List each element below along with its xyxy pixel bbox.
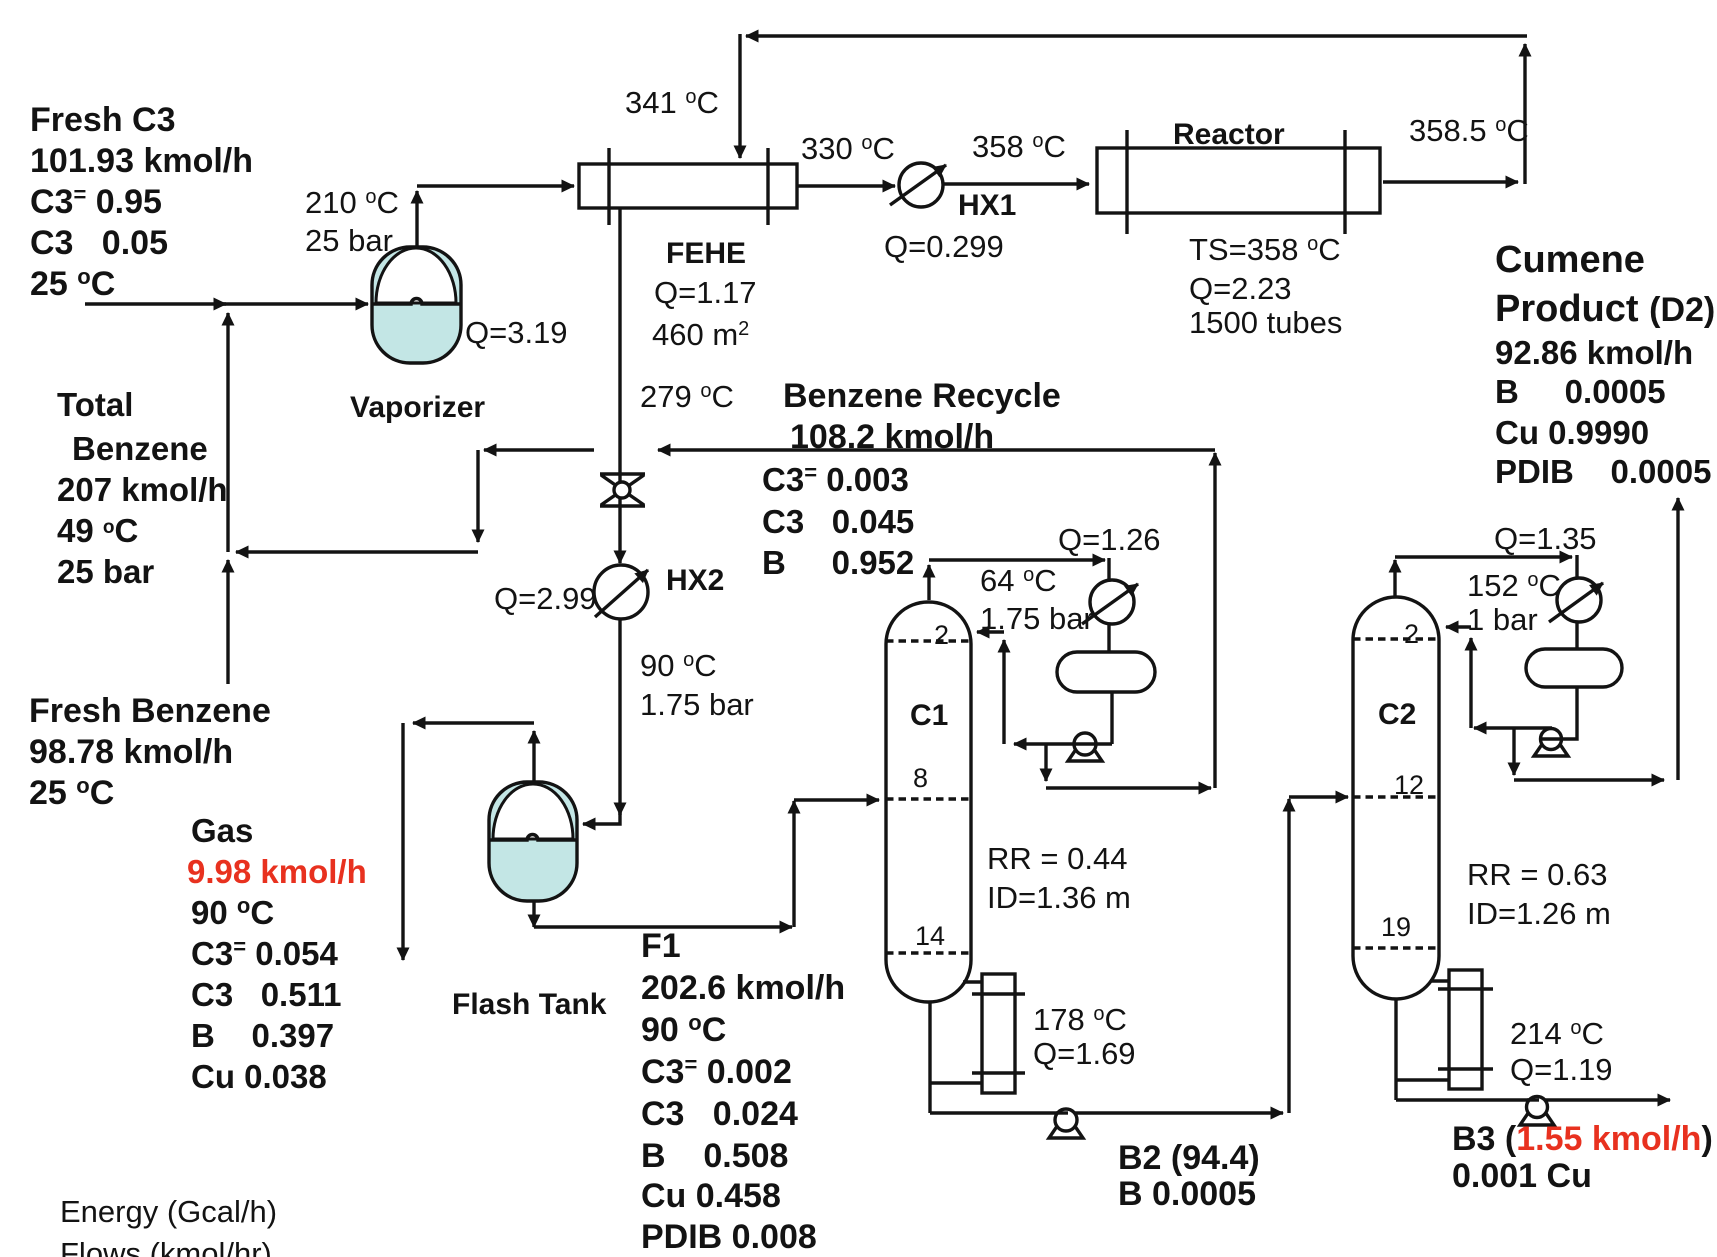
svg-text:B2 (94.4): B2 (94.4)	[1118, 1139, 1260, 1177]
svg-text:Cu 0.9990: Cu 0.9990	[1495, 414, 1649, 451]
svg-text:279 oC: 279 oC	[640, 379, 734, 414]
C2 reflux pump	[1534, 729, 1568, 757]
svg-text:FEHE: FEHE	[666, 237, 746, 270]
svg-text:2: 2	[1404, 619, 1419, 649]
svg-text:Cu 0.038: Cu 0.038	[191, 1058, 327, 1095]
svg-text:90 oC: 90 oC	[191, 893, 274, 931]
wire: drum to pump line C1	[1014, 692, 1112, 744]
svg-text:Q=2.23: Q=2.23	[1189, 271, 1292, 306]
HX1 duty Q=0.299	[884, 229, 1004, 264]
C1 condenser duty Q=1.26	[1058, 522, 1161, 557]
svg-text:152 oC: 152 oC	[1467, 568, 1561, 603]
svg-text:Q=3.19: Q=3.19	[465, 315, 568, 350]
column C1	[886, 602, 971, 1002]
svg-text:330 oC: 330 oC	[801, 131, 895, 166]
svg-text:Flash Tank: Flash Tank	[452, 988, 607, 1021]
label 358 C	[972, 129, 1066, 164]
label 210 C 25 bar	[305, 185, 399, 258]
wire: cumene product riser	[1676, 498, 1679, 780]
svg-text:98.78 kmol/h: 98.78 kmol/h	[29, 733, 233, 771]
wire: drum down to pump C2	[1474, 687, 1577, 739]
svg-text:14: 14	[915, 921, 945, 951]
svg-text:202.6 kmol/h: 202.6 kmol/h	[641, 969, 845, 1007]
wire: condenser to reflux drum C2	[1575, 622, 1578, 649]
wire: C1 distillate to recycle riser	[1046, 744, 1211, 788]
svg-text:Product (D2): Product (D2)	[1495, 288, 1715, 330]
B3 stream label	[1452, 1120, 1713, 1195]
svg-text:B3 (1.55 kmol/h): B3 (1.55 kmol/h)	[1452, 1120, 1713, 1158]
vaporizer vessel	[372, 247, 461, 363]
C1 label	[910, 699, 948, 732]
cumene product text block	[1495, 239, 1715, 490]
svg-text:25 bar: 25 bar	[57, 553, 154, 590]
C2 condenser duty Q=1.35	[1494, 521, 1597, 556]
svg-text:ID=1.36 m: ID=1.36 m	[987, 880, 1131, 915]
label 152 C 1 bar	[1467, 568, 1561, 637]
svg-text:Q=1.69: Q=1.69	[1033, 1036, 1136, 1071]
svg-text:92.86 kmol/h: 92.86 kmol/h	[1495, 334, 1693, 371]
svg-text:C3 0.05: C3 0.05	[30, 224, 168, 262]
svg-text:B 0.397: B 0.397	[191, 1017, 334, 1054]
label 64 C 1.75 bar	[980, 563, 1094, 636]
HX2 duty Q=2.99	[494, 581, 597, 616]
reactor label	[1173, 118, 1285, 151]
FEHE label	[666, 237, 746, 270]
C2 condenser	[1549, 578, 1603, 622]
svg-text:Cu 0.458: Cu 0.458	[641, 1177, 781, 1215]
label 90 C 1.75 bar flash inlet	[640, 648, 754, 722]
svg-text:B 0.0005: B 0.0005	[1495, 373, 1666, 410]
wire: fresh benzene line up to junction	[226, 560, 229, 684]
B2 stream label	[1118, 1139, 1260, 1213]
svg-text:C3= 0.054: C3= 0.054	[191, 934, 338, 972]
fresh C3 text block	[30, 101, 253, 303]
wire: C2 bottoms B3 line	[1396, 999, 1670, 1100]
svg-text:25 bar: 25 bar	[305, 223, 393, 258]
svg-text:RR = 0.63: RR = 0.63	[1467, 857, 1607, 892]
label 341 C	[625, 85, 719, 120]
svg-text:19: 19	[1381, 912, 1411, 942]
C2 reboiler data 214 C Q=1.19	[1510, 1016, 1613, 1087]
wire: flash liquid F1 to column C1	[534, 800, 879, 927]
svg-text:C3 0.024: C3 0.024	[641, 1095, 798, 1133]
heater HX1	[890, 163, 946, 207]
wire: condenser to reflux drum C1	[1107, 624, 1110, 652]
C1 tray numbers	[913, 620, 949, 951]
svg-text:2: 2	[934, 620, 949, 650]
wire: FEHE outlet to HX1	[797, 184, 895, 187]
svg-text:90 oC: 90 oC	[640, 648, 717, 683]
svg-text:TS=358 oC: TS=358 oC	[1189, 232, 1341, 267]
wire: fresh C3 feed line into mix point	[85, 302, 368, 305]
svg-text:358 oC: 358 oC	[972, 129, 1066, 164]
svg-text:101.93 kmol/h: 101.93 kmol/h	[30, 142, 253, 180]
svg-text:Q=1.35: Q=1.35	[1494, 521, 1597, 556]
wire: HX2 to flash tank	[583, 619, 620, 824]
flash tank label	[452, 988, 607, 1021]
svg-text:Cumene: Cumene	[1495, 239, 1645, 281]
svg-text:Q=0.299: Q=0.299	[884, 229, 1004, 264]
svg-text:C3 0.511: C3 0.511	[191, 976, 341, 1013]
wire: B2 riser to column C2	[1289, 797, 1348, 1113]
wire: C1 bottoms B2 line	[930, 1002, 1283, 1113]
svg-text:C3= 0.002: C3= 0.002	[641, 1052, 792, 1091]
svg-text:Q=1.17: Q=1.17	[654, 275, 757, 310]
wire: flash vapor gas vent	[403, 723, 534, 960]
svg-text:B 0.952: B 0.952	[762, 544, 914, 581]
svg-text:358.5 oC: 358.5 oC	[1409, 113, 1529, 148]
C2 design data RR ID	[1467, 857, 1611, 931]
C1 bottoms pump	[1049, 1109, 1083, 1138]
HX1 label	[958, 189, 1016, 222]
svg-text:Q=1.26: Q=1.26	[1058, 522, 1161, 557]
C2 reboiler	[1396, 970, 1493, 1089]
wire: C1 reflux riser to column	[977, 632, 1004, 744]
C1 reboiler data 178 C Q=1.69	[1033, 1002, 1136, 1071]
wire: benzene recycle branch to makeup junction	[236, 450, 594, 552]
svg-text:Q=2.99: Q=2.99	[494, 581, 597, 616]
reactor vessel	[1097, 130, 1380, 234]
benzene recycle header text	[783, 377, 1061, 456]
wire: C1 overhead vapor to condenser	[929, 558, 1109, 600]
legend energy flows	[60, 1194, 277, 1257]
svg-text:25 oC: 25 oC	[29, 773, 114, 812]
C2 bottoms pump	[1520, 1097, 1554, 1126]
svg-text:Flows (kmol/hr): Flows (kmol/hr)	[60, 1236, 272, 1257]
wire: C2 reflux riser to column	[1446, 627, 1471, 728]
svg-text:HX2: HX2	[666, 564, 724, 597]
svg-text:25 oC: 25 oC	[30, 264, 115, 303]
svg-text:Q=1.19: Q=1.19	[1510, 1052, 1613, 1087]
svg-text:1500 tubes: 1500 tubes	[1189, 305, 1342, 340]
FEHE heat exchanger	[579, 148, 797, 225]
svg-text:Total: Total	[57, 386, 133, 423]
svg-text:0.001 Cu: 0.001 Cu	[1452, 1157, 1592, 1195]
F1 stream text block	[641, 927, 845, 1256]
C2 label	[1378, 698, 1416, 731]
svg-text:9.98 kmol/h: 9.98 kmol/h	[187, 853, 367, 890]
svg-text:ID=1.26 m: ID=1.26 m	[1467, 896, 1611, 931]
label 279 C	[640, 379, 734, 414]
C1 reflux drum	[1057, 652, 1155, 692]
FEHE data Q=1.17 460 m2	[652, 275, 757, 352]
svg-text:178 oC: 178 oC	[1033, 1002, 1127, 1037]
svg-text:12: 12	[1394, 770, 1424, 800]
total benzene text block	[57, 386, 228, 590]
svg-text:460 m2: 460 m2	[652, 317, 749, 352]
fresh benzene text block	[29, 692, 271, 812]
svg-text:1 bar: 1 bar	[1467, 602, 1538, 637]
HX2 label	[666, 564, 724, 597]
svg-text:Benzene Recycle: Benzene Recycle	[783, 377, 1061, 415]
svg-text:PDIB 0.008: PDIB 0.008	[641, 1218, 817, 1256]
C1 design data RR ID	[987, 841, 1131, 915]
reactor data TS Q tubes	[1189, 232, 1342, 340]
svg-text:C2: C2	[1378, 698, 1416, 731]
svg-text:C1: C1	[910, 699, 948, 732]
svg-text:B 0.0005: B 0.0005	[1118, 1175, 1256, 1213]
svg-text:214 oC: 214 oC	[1510, 1016, 1604, 1051]
vaporizer duty label Q=3.19	[465, 315, 568, 350]
svg-text:Fresh Benzene: Fresh Benzene	[29, 692, 271, 730]
column C2	[1353, 597, 1439, 999]
svg-text:Benzene: Benzene	[72, 430, 208, 467]
C1 condenser	[1082, 580, 1138, 624]
svg-text:49 oC: 49 oC	[57, 512, 138, 549]
svg-text:PDIB 0.0005: PDIB 0.0005	[1495, 453, 1711, 490]
svg-text:207 kmol/h: 207 kmol/h	[57, 471, 228, 508]
svg-text:B 0.508: B 0.508	[641, 1137, 788, 1175]
C1 reflux pump	[1068, 733, 1102, 761]
svg-text:Vaporizer: Vaporizer	[350, 391, 485, 424]
svg-text:Gas: Gas	[191, 812, 253, 849]
C2 tray numbers	[1381, 619, 1424, 942]
svg-text:C3= 0.95: C3= 0.95	[30, 182, 162, 221]
svg-text:64 oC: 64 oC	[980, 563, 1057, 598]
valve	[600, 474, 645, 506]
svg-text:90 oC: 90 oC	[641, 1010, 726, 1049]
label 330 C	[801, 131, 895, 166]
svg-text:F1: F1	[641, 927, 681, 965]
wire: HX1 to reactor	[943, 182, 1089, 185]
C2 reflux drum	[1526, 649, 1622, 687]
svg-text:1.75 bar: 1.75 bar	[640, 687, 754, 722]
vaporizer label	[350, 391, 485, 424]
svg-text:Energy (Gcal/h): Energy (Gcal/h)	[60, 1194, 277, 1229]
wire: C2 overhead vapor to condenser	[1395, 555, 1577, 597]
svg-text:RR = 0.44: RR = 0.44	[987, 841, 1127, 876]
svg-text:HX1: HX1	[958, 189, 1016, 222]
svg-text:Fresh C3: Fresh C3	[30, 101, 176, 139]
svg-text:341 oC: 341 oC	[625, 85, 719, 120]
gas stream text block	[187, 812, 367, 1095]
wire: top recycle return line to FEHE	[740, 34, 1527, 184]
svg-text:210 oC: 210 oC	[305, 185, 399, 220]
svg-text:C3= 0.003: C3= 0.003	[762, 460, 909, 498]
wire: vaporizer vapor outlet to FEHE	[417, 186, 574, 246]
label 358.5 C	[1409, 113, 1529, 148]
benzene recycle composition	[762, 460, 914, 581]
wire: C2 distillate to product riser	[1514, 728, 1664, 780]
C1 reboiler	[930, 974, 1025, 1093]
svg-text:Reactor: Reactor	[1173, 118, 1285, 151]
wire: total benzene riser to mix point	[226, 313, 229, 552]
wire: main line FEHE down through valve to HX2	[618, 208, 621, 563]
svg-text:8: 8	[913, 763, 928, 793]
wire: benzene recycle line	[658, 450, 1215, 788]
cooler HX2	[594, 565, 648, 619]
svg-text:C3 0.045: C3 0.045	[762, 503, 914, 540]
flash tank vessel	[489, 782, 577, 901]
